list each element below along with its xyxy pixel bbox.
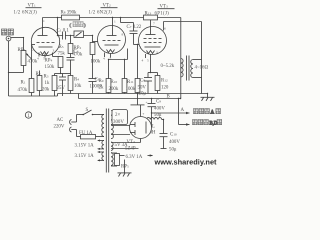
svg-text:7: 7 — [153, 22, 155, 26]
wire A line — [152, 112, 190, 114]
wire rail right of R13 — [158, 17, 181, 19]
svg-text:8: 8 — [122, 33, 124, 37]
circled 1 — [25, 112, 31, 119]
svg-text:400V: 400V — [169, 140, 180, 145]
wire VT2 heater stubs — [104, 53, 106, 58]
svg-text:20μ: 20μ — [139, 92, 147, 97]
ground bus main — [58, 93, 208, 95]
resistor R2 20k — [36, 71, 50, 97]
resistor R1 470k — [18, 79, 34, 97]
svg-text:3: 3 — [156, 51, 158, 55]
svg-text:10k: 10k — [74, 84, 82, 89]
wire input shield down — [8, 41, 10, 96]
svg-text:4: 4 — [37, 57, 39, 61]
svg-text:400V: 400V — [154, 107, 165, 112]
tube VT2 — [98, 18, 126, 61]
wire VT3 plate — [163, 22, 165, 31]
tube VT3 6P1 — [139, 20, 167, 55]
label to-unit-B points B D — [193, 120, 222, 127]
svg-text:C1 0.1: C1 0.1 — [57, 29, 70, 34]
svg-text:4: 4 — [142, 59, 144, 63]
svg-text:120: 120 — [161, 86, 169, 91]
svg-text:100k: 100k — [126, 87, 136, 92]
svg-text:+: + — [146, 101, 148, 105]
resistor R6 100k grid leak — [90, 36, 101, 79]
capacitor C6 1000P — [89, 78, 103, 94]
svg-text:200k: 200k — [109, 87, 119, 92]
heater winding 3.15V b — [75, 151, 105, 161]
switch S — [77, 108, 105, 115]
wire VT2 cathode — [127, 49, 129, 60]
svg-text:1: 1 — [114, 20, 116, 24]
svg-text:5: 5 — [147, 59, 149, 63]
input label — [2, 29, 14, 35]
heater winding 3.15V a — [75, 140, 105, 150]
potentiometer RP4 150k — [45, 57, 63, 74]
svg-text:50μ: 50μ — [169, 148, 177, 153]
svg-text:4~16Ω: 4~16Ω — [195, 66, 209, 71]
resistor R13 — [144, 12, 158, 20]
capacitor C4 — [67, 50, 79, 76]
svg-text:2: 2 — [140, 46, 142, 50]
wire VT1 cathode — [52, 53, 54, 57]
svg-text:L: L — [152, 125, 155, 130]
svg-text:C7 0.22: C7 0.22 — [127, 25, 142, 30]
choke L 10H — [147, 118, 164, 136]
wire VT3 heater stub — [145, 54, 147, 58]
heater winding 6.3V 1A with humdinger RP5 — [111, 153, 153, 170]
svg-text:3: 3 — [53, 49, 55, 53]
ground bus left — [9, 95, 58, 97]
wire VT3 cathode — [150, 55, 152, 73]
chassis ground right — [201, 94, 215, 101]
svg-text:2k: 2k — [99, 86, 104, 91]
svg-text:6.3V 1A: 6.3V 1A — [126, 155, 143, 160]
svg-text:A: A — [181, 108, 185, 113]
svg-text:20k: 20k — [42, 88, 50, 93]
rectifier heater winding 5V 3A — [111, 142, 141, 150]
svg-text:7: 7 — [143, 112, 145, 116]
input terminal — [6, 36, 11, 41]
capacitor C8 20u — [138, 73, 153, 97]
tube VT1 — [31, 18, 59, 61]
svg-text:1k: 1k — [45, 81, 50, 86]
resistor R3 1k — [44, 75, 57, 97]
svg-text:75k: 75k — [58, 52, 66, 57]
tube VT3 label — [155, 5, 175, 17]
svg-text:4: 4 — [103, 57, 105, 61]
wire VT2 grid stub — [93, 41, 99, 43]
capacitor C9 50u 400V — [146, 99, 166, 128]
resistor R5 75k — [58, 36, 73, 57]
capacitor C10 50u 400V — [160, 120, 181, 153]
ground bottom — [118, 168, 132, 177]
svg-text:5V 3A: 5V 3A — [115, 143, 129, 148]
resistor R10 200k — [109, 79, 127, 94]
wire arrow line 2 — [178, 99, 180, 125]
wire B line lower — [79, 98, 181, 100]
resistor R9 2k — [99, 79, 111, 94]
resistor R4 10k — [68, 76, 82, 94]
capacitor C7 0.22 — [127, 23, 142, 45]
power transformer T core — [105, 109, 107, 173]
svg-text:0~5.2k: 0~5.2k — [161, 64, 175, 69]
power transformer primary winding — [102, 115, 104, 137]
svg-text:3.15V 1A: 3.15V 1A — [75, 144, 95, 149]
wire VT1 heater stubs — [38, 53, 40, 57]
svg-text:6: 6 — [164, 27, 166, 31]
svg-text:1/2 6N2(J): 1/2 6N2(J) — [89, 11, 113, 16]
resistor R8 390k — [61, 11, 80, 20]
svg-text:2: 2 — [32, 48, 34, 52]
svg-text:S: S — [86, 108, 89, 113]
resistor R11 100k — [126, 45, 140, 94]
AC plug — [54, 115, 77, 137]
svg-text:3.15V 1A: 3.15V 1A — [75, 154, 95, 159]
svg-text:220V: 220V — [54, 125, 65, 130]
svg-text:470k: 470k — [28, 60, 38, 65]
wire B+ rail top — [43, 17, 144, 19]
fuse FU 1A — [77, 131, 105, 139]
HV secondary winding 2x300V — [111, 110, 130, 139]
svg-text:300V: 300V — [113, 120, 124, 125]
trimmer RP2 470k — [73, 31, 84, 58]
output transformer primary lead — [180, 18, 182, 99]
wire VT2 plate tap — [120, 18, 122, 23]
capacitor C1 0.1 — [57, 29, 70, 40]
svg-text:50μ: 50μ — [154, 113, 162, 118]
svg-text:470k: 470k — [18, 88, 28, 93]
wire input to pot top — [11, 37, 24, 39]
capacitor C2 100u 25V — [57, 74, 67, 97]
tube VT2 label — [89, 4, 118, 16]
wire coupling line — [58, 35, 93, 37]
label to-unit-B point A — [194, 109, 221, 116]
svg-text:1/2 6N2(J): 1/2 6N2(J) — [14, 11, 38, 16]
ground corner mid — [131, 94, 145, 105]
svg-text:150k: 150k — [45, 65, 55, 70]
phase-inverter note — [70, 22, 87, 28]
svg-text:www.sharediy.net: www.sharediy.net — [154, 158, 218, 167]
svg-text:25V: 25V — [57, 86, 66, 91]
wire pot bottom — [9, 72, 24, 74]
svg-text:B,D: B,D — [210, 122, 218, 127]
potentiometer RP1 470k — [18, 48, 38, 66]
resistor R12 120 — [155, 73, 169, 94]
svg-text:2×: 2× — [115, 113, 120, 118]
svg-text:A: A — [211, 111, 215, 116]
svg-text:1: 1 — [43, 19, 45, 23]
wire cathode node — [55, 73, 71, 75]
svg-text:AC: AC — [57, 118, 64, 123]
rectifier tube VT4 5Z4P — [125, 105, 152, 152]
output transformer T2 — [161, 22, 209, 94]
svg-text:50V: 50V — [138, 86, 147, 91]
wire VT1 grid — [32, 44, 36, 46]
svg-text:100k: 100k — [91, 60, 101, 65]
tube VT1 label — [14, 4, 42, 16]
wire plate node riser — [57, 18, 59, 36]
